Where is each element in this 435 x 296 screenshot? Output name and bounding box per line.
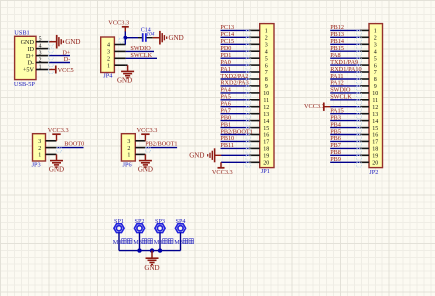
svg-text:JP6: JP6 [123, 161, 132, 168]
pin 12 (JP1) [249, 105, 269, 111]
power VCC3.3 (JP3) [48, 127, 69, 141]
svg-text:2: 2 [107, 57, 110, 63]
svg-text:M3: M3 [174, 239, 183, 246]
net label RXD2/PA3 [220, 80, 248, 87]
comment M3&#34617;&#26609; (SP3) [154, 239, 173, 246]
pin 2 (JP3) [38, 146, 56, 152]
net label PC14 [220, 31, 234, 38]
pin 17 (JP1) [249, 140, 269, 146]
ground GND (JP6 pin 1) [138, 154, 153, 173]
pin 14 (JP2) [360, 119, 378, 125]
svg-text:4: 4 [107, 43, 110, 49]
header JP1 [260, 24, 274, 168]
svg-text:8: 8 [374, 77, 377, 83]
svg-text:1: 1 [39, 64, 42, 70]
pin 2 D- [27, 57, 53, 66]
pin 17 (JP2) [360, 140, 378, 146]
svg-text:PB0: PB0 [220, 114, 231, 121]
wire PA7 [221, 114, 251, 119]
designator USB1 [14, 30, 29, 37]
pin 11 (JP2) [360, 98, 378, 104]
net label PB5 [330, 128, 341, 135]
pin 11 (JP1) [249, 98, 269, 104]
pin 4 (JP2) [360, 49, 377, 55]
wire PA1 [221, 72, 251, 77]
svg-text:19: 19 [263, 154, 269, 160]
wire PB14 [330, 44, 361, 49]
wire PB2/BOOT1 [145, 147, 177, 152]
svg-text:4: 4 [265, 49, 268, 55]
svg-text:SP2: SP2 [135, 218, 145, 225]
wire PB12 [330, 30, 361, 35]
wire PB3 [330, 121, 361, 126]
pin 2 (JP1) [249, 36, 268, 42]
wire PB8 [330, 155, 361, 160]
designator JP4 [103, 73, 113, 80]
svg-text:3: 3 [265, 43, 268, 49]
svg-text:7: 7 [374, 70, 377, 76]
pin 6 (JP1) [249, 63, 268, 69]
net label PC13 [220, 24, 234, 31]
pin 1 (JP6) [127, 153, 145, 159]
pin 8 (JP1) [249, 77, 268, 83]
net label PB4 [330, 121, 341, 128]
svg-text:GND: GND [117, 76, 132, 84]
svg-text:+5V: +5V [23, 67, 35, 74]
wire PA4 [221, 93, 251, 98]
svg-text:PB15: PB15 [330, 45, 344, 52]
svg-text:RXD2/PA3: RXD2/PA3 [220, 80, 248, 87]
svg-text:PA1: PA1 [220, 66, 230, 73]
svg-text:VCC3.3: VCC3.3 [212, 169, 233, 176]
net label PB0 [220, 114, 231, 121]
connector JP3 [33, 134, 46, 161]
svg-text:6: 6 [374, 63, 377, 69]
net label PB12 [330, 24, 344, 31]
pin 18 (JP2) [360, 147, 378, 153]
net label PA5 [220, 94, 230, 101]
net label PA11 [330, 73, 343, 80]
designator SP3 [155, 218, 165, 225]
svg-text:SP3: SP3 [155, 218, 165, 225]
wire RXD2/PA3 [221, 86, 251, 91]
wire PB13 [330, 37, 361, 42]
wire SWCLK [330, 100, 361, 105]
svg-text:2: 2 [38, 146, 41, 152]
wire junction to C14 [125, 37, 138, 39]
wire (SP1 to ground bus) [118, 233, 120, 251]
designator SP4 [176, 218, 186, 225]
svg-text:PB8: PB8 [330, 149, 341, 156]
svg-text:5: 5 [374, 56, 377, 62]
svg-text:12: 12 [372, 105, 378, 111]
svg-text:13: 13 [263, 112, 269, 118]
svg-text:SWCLK: SWCLK [130, 52, 152, 59]
svg-text:JP1: JP1 [261, 168, 270, 175]
net label PB11 [220, 142, 234, 149]
svg-text:6: 6 [265, 63, 268, 69]
wire PB9 [330, 162, 361, 167]
wire PA11 [330, 79, 361, 84]
wire VCC3.3 to pin 4 [124, 31, 126, 45]
pin 3 (JP6) [127, 139, 145, 145]
power VCC3.3 (JP4) [108, 19, 129, 31]
pin 19 (JP1) [249, 154, 269, 160]
net label PB15 [330, 45, 344, 52]
net label PB10 [220, 135, 234, 142]
svg-text:5: 5 [265, 56, 268, 62]
svg-text:10: 10 [372, 91, 378, 97]
svg-text:3: 3 [38, 139, 41, 145]
pin 4 (JP1) [249, 49, 268, 55]
net label RXD1/PA10 [330, 66, 361, 73]
svg-text:D-: D- [64, 56, 71, 63]
pin 18 (JP1) [249, 147, 269, 153]
designator SP2 [135, 218, 145, 225]
svg-text:14: 14 [263, 119, 269, 125]
svg-text:3: 3 [107, 50, 110, 56]
wire TXD1/PA9 [330, 65, 361, 70]
comment USB-5P [14, 81, 35, 88]
junction (SP3) [158, 248, 162, 252]
pin 15 (JP1) [249, 126, 269, 132]
svg-text:2: 2 [265, 36, 268, 42]
svg-text:17: 17 [263, 140, 269, 146]
svg-text:PB6: PB6 [330, 135, 341, 142]
wire D- [49, 62, 70, 64]
pin 1 (JP2) [360, 29, 377, 35]
designator JP3 [32, 161, 41, 168]
svg-text:2: 2 [39, 57, 42, 63]
junction (ground tap) [150, 248, 154, 252]
net label PB1 [220, 121, 231, 128]
comment M3&#34617;&#26609; (SP1) [113, 239, 132, 246]
capacitor C14 [138, 33, 153, 42]
svg-text:4: 4 [374, 49, 377, 55]
mounting post SP1 [114, 224, 124, 233]
net label PB7 [330, 142, 341, 149]
pin 8 (JP2) [360, 77, 377, 83]
net label PB3 [330, 114, 341, 121]
net label PA4 [220, 87, 230, 94]
designator C14 [141, 27, 151, 33]
pin 1 (JP3) [38, 153, 56, 159]
USB connector USB1 [15, 36, 36, 79]
wire PB11 [221, 148, 251, 153]
wire PA5 [221, 100, 251, 105]
svg-text:13: 13 [372, 112, 378, 118]
pin 10 (JP2) [360, 91, 378, 97]
svg-text:BOOT0: BOOT0 [64, 140, 84, 147]
pin 3 (JP1) [249, 43, 268, 49]
net label PB14 [330, 38, 344, 45]
net label PB2/BOOT1 [220, 128, 252, 135]
ground GND (USB pin 5) [49, 35, 80, 49]
svg-text:GND: GND [65, 38, 80, 46]
svg-text:10: 10 [263, 91, 269, 97]
svg-text:20: 20 [372, 161, 378, 167]
wire PB15 [330, 51, 361, 56]
svg-text:16: 16 [372, 133, 378, 139]
wire PC13 [221, 30, 251, 35]
svg-text:20: 20 [263, 161, 269, 167]
pin 3 (JP3) [38, 139, 56, 145]
svg-text:3: 3 [39, 50, 42, 56]
wire (SP3 to ground bus) [159, 233, 161, 251]
pin 13 (JP1) [249, 112, 269, 118]
pin 3 (JP4) [107, 50, 126, 56]
net label PC15 [220, 38, 234, 45]
svg-text:1: 1 [38, 153, 41, 159]
ground GND (C14) [153, 31, 184, 45]
wire PB2/BOOT1 [221, 135, 251, 140]
pin 3 D+ [26, 50, 53, 59]
wire PB7 [330, 148, 361, 153]
svg-text:PB3: PB3 [330, 114, 341, 121]
svg-text:GND: GND [144, 264, 159, 272]
wire VCC3.3 net (JP2 pin 12) [330, 107, 361, 112]
wire RXD1/PA10 [330, 72, 361, 77]
pin 12 (JP2) [360, 105, 378, 111]
net label PA12 [330, 80, 344, 87]
pin 1 (JP1) [249, 29, 268, 35]
svg-text:PB2/BOOT1: PB2/BOOT1 [145, 140, 177, 147]
net label PA1 [220, 66, 230, 73]
net label D- [64, 56, 71, 63]
svg-text:PC14: PC14 [220, 31, 234, 38]
wire SWCLK [126, 57, 157, 59]
svg-text:9: 9 [265, 84, 268, 90]
wire PA15 [330, 114, 361, 119]
junction (SP2) [137, 248, 141, 252]
wire PC14 [221, 37, 251, 42]
pin 2 (JP4) [107, 57, 126, 63]
pin 14 (JP1) [249, 119, 269, 125]
svg-text:PB13: PB13 [330, 31, 344, 38]
net label PA0 [220, 59, 230, 66]
svg-text:104: 104 [146, 32, 154, 38]
svg-text:RXD1/PA10: RXD1/PA10 [330, 66, 361, 73]
wire PB1 [221, 128, 251, 133]
svg-text:GND: GND [49, 166, 64, 174]
designator SP1 [114, 218, 124, 225]
wire PD0 [221, 51, 251, 56]
pin 5 (JP2) [360, 56, 377, 62]
wire PA12 [330, 86, 361, 91]
mounting post SP4 [175, 224, 185, 233]
pin 16 (JP1) [249, 133, 269, 139]
pin 20 (JP1) [249, 161, 269, 167]
svg-text:11: 11 [372, 98, 378, 104]
comment M3&#34617;&#26609; (SP4) [174, 239, 193, 246]
svg-text:M3: M3 [113, 239, 122, 246]
wire PA0 [221, 65, 251, 70]
svg-text:D-: D- [27, 60, 34, 67]
power VCC3.3 (JP2 pin 12) [304, 103, 330, 111]
svg-text:12: 12 [263, 105, 269, 111]
ground GND (JP1 pin 19) [189, 148, 221, 162]
wire PB4 [330, 128, 361, 133]
pin 1 +5V [23, 64, 53, 73]
pin 7 (JP1) [249, 70, 268, 76]
svg-text:SWCLK: SWCLK [330, 94, 352, 101]
svg-text:7: 7 [265, 70, 268, 76]
svg-text:11: 11 [263, 98, 269, 104]
svg-text:1: 1 [374, 29, 377, 35]
pin 10 (JP1) [249, 91, 269, 97]
wire PB6 [330, 141, 361, 146]
designator JP2 [369, 169, 378, 176]
wire VCC3.3 net (JP1 pin 20) [221, 162, 251, 167]
net label PA6 [220, 101, 230, 108]
svg-text:8: 8 [265, 77, 268, 83]
wire PA8 [330, 58, 361, 63]
header JP2 [369, 24, 383, 168]
mounting post SP2 [134, 224, 144, 233]
svg-text:16: 16 [263, 133, 269, 139]
wire D+ [49, 55, 70, 57]
net label PA8 [330, 52, 340, 59]
net label SWDIO [130, 45, 151, 52]
power VCC5 [49, 66, 73, 74]
svg-text:PA6: PA6 [220, 101, 230, 108]
svg-text:4: 4 [39, 43, 42, 49]
net label PB6 [330, 135, 341, 142]
svg-text:18: 18 [263, 147, 269, 153]
net label PA15 [330, 108, 344, 115]
svg-text:15: 15 [372, 126, 378, 132]
pin 3 (JP2) [360, 43, 377, 49]
svg-text:VCC3.3: VCC3.3 [108, 19, 129, 26]
pin 20 (JP2) [360, 161, 378, 167]
svg-text:3: 3 [127, 139, 130, 145]
net label PB2/BOOT1 [145, 140, 177, 147]
wire SWDIO [126, 50, 154, 52]
svg-text:USB1: USB1 [14, 30, 29, 37]
svg-text:GND: GND [189, 152, 204, 160]
net label PB9 [330, 156, 341, 163]
svg-text:GND: GND [138, 166, 153, 174]
svg-text:14: 14 [372, 119, 378, 125]
net label PA7 [220, 108, 230, 115]
svg-text:17: 17 [372, 140, 378, 146]
connector JP4 [101, 37, 115, 73]
pin 19 (JP2) [360, 154, 378, 160]
junction (JP4 pin 4 / C14) [119, 36, 127, 43]
svg-text:1: 1 [127, 153, 130, 159]
svg-text:VCC5: VCC5 [58, 67, 74, 74]
net label PB13 [330, 31, 344, 38]
svg-text:PB11: PB11 [220, 142, 234, 149]
net label BOOT0 [64, 140, 84, 147]
svg-text:2: 2 [374, 36, 377, 42]
svg-text:JP3: JP3 [32, 161, 41, 168]
svg-text:M3: M3 [154, 239, 163, 246]
power VCC3.3 (JP6) [137, 127, 158, 141]
pin 2 (JP6) [127, 146, 145, 152]
net label SWCLK [330, 94, 352, 101]
svg-text:VCC3.3: VCC3.3 [48, 127, 69, 134]
svg-text:SP4: SP4 [176, 218, 186, 225]
comment M3&#34617;&#26609; (SP2) [133, 239, 152, 246]
ground GND (JP4 pin 1) [117, 65, 134, 84]
svg-text:PA12: PA12 [330, 80, 344, 87]
wire GND net (JP1 pin 19) [221, 155, 251, 160]
value 104 (C14) [146, 32, 154, 38]
svg-text:18: 18 [372, 147, 378, 153]
pin 1 (JP4) [107, 63, 126, 69]
pin 9 (JP1) [249, 84, 268, 90]
wire PA6 [221, 107, 251, 112]
connector JP6 [121, 134, 135, 161]
wire PB0 [221, 121, 251, 126]
pin 16 (JP2) [360, 133, 378, 139]
svg-text:VCC3.3: VCC3.3 [304, 103, 325, 110]
mounting post SP3 [155, 224, 165, 233]
svg-text:SP1: SP1 [114, 218, 124, 225]
net label SWCLK [130, 52, 152, 59]
svg-text:3: 3 [374, 43, 377, 49]
pin 5 (JP1) [249, 56, 268, 62]
pin 7 (JP2) [360, 70, 377, 76]
net label PD1 [220, 52, 231, 59]
svg-text:ID: ID [27, 46, 34, 53]
wire TXD2/PA2 [221, 79, 251, 84]
wire SWDIO [330, 93, 361, 98]
svg-text:GND: GND [169, 34, 184, 42]
wire ground bus [119, 250, 181, 252]
wire (SP4 to ground bus) [180, 233, 182, 251]
net label TXD2/PA2 [220, 73, 248, 80]
pin 6 (JP2) [360, 63, 377, 69]
net label PD0 [220, 45, 231, 52]
pin 4 (JP4) [107, 43, 126, 49]
net label SWDIO [330, 87, 351, 94]
ground GND (mounting posts) [144, 251, 159, 272]
svg-text:15: 15 [263, 126, 269, 132]
svg-text:1: 1 [107, 63, 110, 69]
wire PB10 [221, 141, 251, 146]
pin 13 (JP2) [360, 112, 378, 118]
svg-text:2: 2 [127, 146, 130, 152]
net label D+ [62, 49, 70, 56]
svg-text:PD0: PD0 [220, 45, 231, 52]
svg-text:5: 5 [39, 37, 42, 43]
power VCC3.3 (JP1 pin 20) [212, 162, 233, 176]
svg-text:JP2: JP2 [369, 169, 378, 176]
wire PD1 [221, 58, 251, 63]
net label TXD1/PA9 [330, 59, 358, 66]
designator JP6 [123, 161, 132, 168]
svg-text:9: 9 [374, 84, 377, 90]
pin 2 (JP2) [360, 36, 377, 42]
svg-text:1: 1 [265, 29, 268, 35]
wire PC15 [221, 44, 251, 49]
svg-text:19: 19 [372, 154, 378, 160]
pin 5 GND [21, 37, 54, 46]
pin 15 (JP2) [360, 126, 378, 132]
svg-text:USB-5P: USB-5P [14, 81, 35, 88]
svg-text:M3: M3 [133, 239, 142, 246]
svg-text:PB9: PB9 [330, 156, 341, 163]
svg-text:PB10: PB10 [220, 135, 234, 142]
wire (SP2 to ground bus) [139, 233, 141, 251]
ground GND (JP3 pin 1) [49, 154, 64, 173]
svg-text:JP4: JP4 [103, 73, 113, 80]
svg-text:VCC3.3: VCC3.3 [137, 127, 158, 134]
net label PB8 [330, 149, 341, 156]
wire BOOT0 [57, 147, 84, 152]
